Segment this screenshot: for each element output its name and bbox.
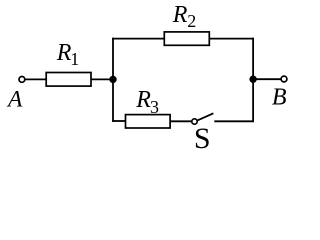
- terminal A: [19, 77, 25, 83]
- svg-text:A: A: [6, 87, 23, 113]
- wire R3 to switch: [170, 120, 192, 122]
- svg-text:1: 1: [70, 49, 79, 69]
- wire bottom branch left segment: [112, 120, 125, 122]
- resistor R1: [46, 73, 91, 87]
- svg-text:2: 2: [187, 11, 196, 31]
- svg-text:B: B: [272, 85, 287, 111]
- node junction right: [249, 76, 256, 83]
- node junction left: [109, 76, 116, 83]
- wire vertical left branch: [112, 38, 114, 122]
- svg-text:S: S: [194, 122, 211, 150]
- resistor R3: [126, 115, 171, 128]
- wire top branch left segment: [112, 38, 164, 40]
- switch S pivot circle: [192, 119, 197, 124]
- wire top branch right segment: [209, 38, 254, 40]
- svg-text:R: R: [135, 87, 151, 113]
- resistor R2: [164, 32, 209, 45]
- wire node to B: [253, 78, 281, 80]
- svg-text:R: R: [172, 2, 188, 28]
- switch S blade: [197, 113, 213, 120]
- wire R1 to node left: [91, 78, 113, 80]
- wire vertical right branch: [252, 38, 254, 122]
- svg-text:3: 3: [150, 97, 159, 117]
- wire A to R1: [25, 78, 46, 80]
- terminal B: [281, 76, 287, 82]
- wire switch to right branch: [214, 120, 254, 122]
